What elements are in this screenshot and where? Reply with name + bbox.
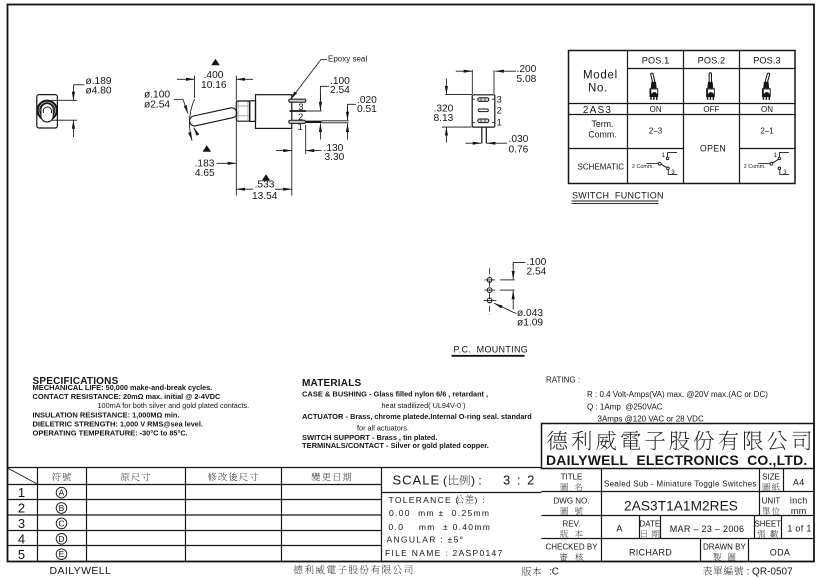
pc mounting: hole 3 [484,298,497,303]
svg-text:ODA: ODA [770,547,790,557]
side view: bushing thread lines [237,102,250,122]
svg-text:Term.: Term. [592,119,614,129]
svg-text:DIELETRIC STRENGTH: 1,000 V RM: DIELETRIC STRENGTH: 1,000 V RMS@sea leve… [33,419,203,428]
svg-text:P.C. MOUNTING: P.C. MOUNTING [454,345,529,355]
swing arc through lever [189,99,194,141]
svg-text:2 Comm.: 2 Comm. [632,164,654,170]
svg-text:POS.1: POS.1 [642,56,670,66]
text: 日期 [641,530,659,538]
svg-text:13.54: 13.54 [252,191,278,202]
front view: lever inner arc [43,107,51,113]
svg-text:10.16: 10.16 [201,80,227,91]
pc mounting dimension φ.043 φ1.09 leader [494,303,516,313]
svg-text:2.54: 2.54 [527,266,547,277]
svg-text:OFF: OFF [703,105,719,114]
svg-text:CHECKED BY: CHECKED BY [545,543,598,552]
dimension .320 8.13: extension lines and arrows [442,79,472,143]
svg-text:heat stadilized( UL94V-0 ): heat stadilized( UL94V-0 ) [382,401,466,410]
side view: pin 2 [290,110,306,112]
svg-text:E: E [59,549,65,559]
schematic POS.3: common wire and label [744,153,789,177]
text: 表單編號 [703,566,743,575]
svg-text:MAR – 23 – 2006: MAR – 23 – 2006 [670,524,745,534]
side view: lever (toggle bat) [189,107,238,127]
svg-text:RATING :: RATING : [546,376,580,385]
svg-text:: QR-0507: : QR-0507 [747,566,794,577]
svg-text:INSULATION RESISTANCE: 1,000MΩ: INSULATION RESISTANCE: 1,000MΩ min. [33,411,180,420]
svg-text:SCALE: SCALE [393,473,441,488]
toggle icon POS.1 (lever left) [650,74,659,100]
dimension .183 4.65: arrow [217,162,237,164]
svg-text:2: 2 [497,105,502,115]
front view: bushing outer ring [38,101,57,120]
text: 公差 [455,495,473,504]
side view: case body [256,95,292,129]
rear view: terminal slot 1 [478,119,489,123]
text: 圖號 [561,507,583,515]
svg-text:1 of 1: 1 of 1 [787,523,811,533]
svg-text:2: 2 [18,501,25,516]
text: 德利威電子股份有限公司 [547,431,810,451]
dimension .030 0.76: arrows [466,142,508,144]
front view: lever body [41,104,53,122]
svg-text:Sealed Sub - Miniature Toggle: Sealed Sub - Miniature Toggle Switches [604,480,757,489]
dimension .200 5.08: extension lines and arrows [456,70,516,94]
svg-text:5: 5 [18,547,25,562]
side view: collar [250,101,256,122]
side view: bushing [236,101,249,121]
svg-text:POS.2: POS.2 [698,56,726,66]
svg-text:SCHEMATIC: SCHEMATIC [578,162,625,171]
svg-text:No.: No. [588,83,608,95]
revision table: row numbers [18,485,25,562]
svg-text:SHEET: SHEET [754,519,781,528]
svg-text:2.54: 2.54 [330,85,350,96]
svg-text:Q : 1Amp @250VAC: Q : 1Amp @250VAC [587,402,663,411]
dimension φ.189 φ4.80: leader lines [52,85,85,137]
svg-text:(: ( [443,474,447,488]
dimension .533 13.54: triangle [262,174,271,181]
text: 變更日期 [312,473,352,482]
svg-text:DRAWN BY: DRAWN BY [703,543,746,552]
dimension .183 4.65: triangle [203,145,212,152]
svg-text:CASE & BUSHING - Glass filled: CASE & BUSHING - Glass filled nylon 6/6 … [302,389,488,398]
svg-text:ON: ON [761,105,773,114]
svg-text:Epoxy seal: Epoxy seal [328,54,367,63]
svg-text:A: A [616,523,622,533]
epoxy seal label and leader [291,60,327,100]
svg-text:2: 2 [298,112,303,122]
svg-text:) :: ) : [475,495,486,505]
svg-text:R : 0.4 Volt-Amps(VA) max. @20: R : 0.4 Volt-Amps(VA) max. @20V max.(AC … [587,390,768,399]
text: 審核 [560,553,583,561]
side view: pin 1 [289,120,306,123]
switch function table: outer frame [569,51,796,184]
svg-text:2AS3: 2AS3 [583,105,612,116]
svg-text:3.30: 3.30 [325,152,345,163]
svg-text:8.13: 8.13 [434,113,454,124]
front view: switch panel outline [37,95,58,128]
svg-text:0.0 mm ± 0.40mm: 0.0 mm ± 0.40mm [389,522,492,532]
title block grid [542,469,815,562]
svg-text:MATERIALS: MATERIALS [302,378,362,389]
svg-text:FILE NAME : 2ASP0147: FILE NAME : 2ASP0147 [385,548,504,558]
svg-text:A: A [59,488,65,498]
schematic POS.1: common wire and label [632,153,677,177]
svg-text:DAILYWELL ELECTRONICS CO.,LT: DAILYWELL ELECTRONICS CO.,LTD. [546,452,808,468]
svg-text:1: 1 [18,485,25,500]
svg-text:SIZE: SIZE [762,473,780,482]
side view: pin 3 [289,99,306,102]
svg-text:ANGULAR : ±5°: ANGULAR : ±5° [387,534,465,544]
svg-text:ACTUATOR - Brass, chrome plate: ACTUATOR - Brass, chrome platede.Interna… [302,412,532,421]
rear view: pins below case [481,127,483,143]
svg-text:) :: ) : [471,474,482,488]
svg-text:C: C [58,518,64,528]
text: 張數 [758,530,778,538]
svg-text:2AS3T1A1M2RES: 2AS3T1A1M2RES [624,499,738,514]
toggle icon POS.2 (lever straight) [706,74,715,100]
svg-text:DAILYWELL: DAILYWELL [50,565,112,577]
pc mounting: hole 2 [484,288,495,293]
svg-text:DATE: DATE [639,519,660,528]
svg-text:MECHANICAL LIFE: 50,000 make-a: MECHANICAL LIFE: 50,000 make-and-break c… [33,383,213,392]
svg-text:A4: A4 [793,477,805,487]
front view: bushing inner circle [40,103,55,118]
text: 圖紙 [763,483,780,491]
svg-text:ON: ON [650,105,662,114]
rear view: terminal slot 2 [478,109,488,112]
switch function table: column lines [628,51,740,184]
svg-text:2 Comm.: 2 Comm. [744,164,766,170]
svg-text:3: 3 [298,102,303,112]
svg-text:TOLERANCE (: TOLERANCE ( [389,495,460,505]
company block frame [542,424,815,469]
dimension .400 10.16: extension lines [177,76,253,196]
dimension .533 13.54: extension + arrows [236,130,291,196]
toggle icon POS.3 (lever right) [762,74,771,100]
svg-text:D: D [58,534,64,544]
svg-text:DWG NO.: DWG NO. [554,497,590,506]
svg-text:3: 3 [497,95,502,105]
side view: pin 1 long lead [306,121,322,123]
text: 修改後尺寸 [208,473,258,482]
svg-text:3: 3 [18,516,25,531]
revision table: header diagonal [8,468,37,484]
svg-text:100mA for both silver and gold: 100mA for both silver and gold plated co… [98,401,250,410]
dimension φ.100 φ2.54 leader [174,100,188,114]
svg-text:3 : 2: 3 : 2 [503,473,536,488]
text: 製圖 [713,553,735,561]
svg-text::C: :C [549,566,559,577]
svg-text:0.00 mm ± 0.25mm: 0.00 mm ± 0.25mm [389,508,490,518]
svg-text:2–1: 2–1 [760,127,774,136]
rear view: case outline [472,95,495,127]
text: 符號 [52,473,71,482]
svg-text:OPERATING TEMPERATURE: -30°C t: OPERATING TEMPERATURE: -30°C to 85°C. [33,428,188,437]
dimension .100 2.54 (pin pitch): bracket and arrows [320,86,329,139]
svg-text:Model: Model [583,70,618,82]
pc mounting: vertical centerline [489,268,491,314]
svg-text:2–3: 2–3 [649,127,663,136]
switch function table: row lines [569,69,796,149]
text: 單位 [762,507,780,515]
svg-text:0.76: 0.76 [509,144,529,155]
text: 圖名 [561,483,582,491]
svg-text:1: 1 [497,117,502,127]
svg-text:.533: .533 [255,180,275,191]
svg-text:ø4.80: ø4.80 [86,85,112,96]
svg-text:POS.3: POS.3 [753,56,781,66]
svg-text:4.65: 4.65 [195,168,215,179]
svg-text:5.08: 5.08 [517,74,537,85]
svg-text:REV.: REV. [563,519,581,528]
svg-text:RICHARD: RICHARD [629,547,672,557]
rear view: terminal slot 3 [478,98,489,102]
svg-text:ø2.54: ø2.54 [144,99,170,110]
svg-text:1: 1 [298,122,303,132]
text: 版本 [560,530,582,538]
text: 版本 [522,567,541,576]
dimension .130 3.30: arrows [276,125,322,154]
text: 比例 [449,475,470,485]
svg-text:TITLE: TITLE [561,473,583,482]
text: 原尺寸 [121,473,150,482]
dimension .400 10.16: sdcm triangle [211,59,220,66]
dimension .020 0.51: bracket and arrows [348,104,357,139]
revision table: frame [8,468,542,562]
svg-text:4: 4 [18,531,25,546]
svg-text:TERMINALS/CONTACT - Silver or: TERMINALS/CONTACT - Silver or gold plate… [302,441,489,450]
rear view: corner notch lines [472,99,494,122]
svg-text:3Amps @120 VAC or 28 VDC: 3Amps @120 VAC or 28 VDC [598,414,704,423]
svg-text:mm: mm [791,506,807,516]
svg-text:.030: .030 [509,134,529,145]
text: 德利威電子股份有限公司 [293,565,412,574]
svg-text:SWITCH FUNCTION: SWITCH FUNCTION [572,191,664,201]
svg-text:.400: .400 [204,70,224,81]
svg-text:OPEN: OPEN [700,143,726,153]
svg-text:inch: inch [790,496,808,506]
revision table: circled letters A-E [56,487,67,559]
pc mounting: hole 1 [484,278,495,283]
svg-text:CONTACT RESISTANCE: 20mΩ max.: CONTACT RESISTANCE: 20mΩ max. initial @ … [33,392,222,401]
svg-text:Comm.: Comm. [588,129,616,139]
svg-text:UNIT: UNIT [762,497,781,506]
svg-text:for all actuators.: for all actuators. [357,424,409,433]
svg-text:B: B [59,503,65,513]
svg-text:0.51: 0.51 [357,104,377,115]
svg-text:ø1.09: ø1.09 [517,318,543,329]
scale tolerance box frame [382,492,542,494]
pc mounting dimension .100 2.54 [500,262,526,309]
